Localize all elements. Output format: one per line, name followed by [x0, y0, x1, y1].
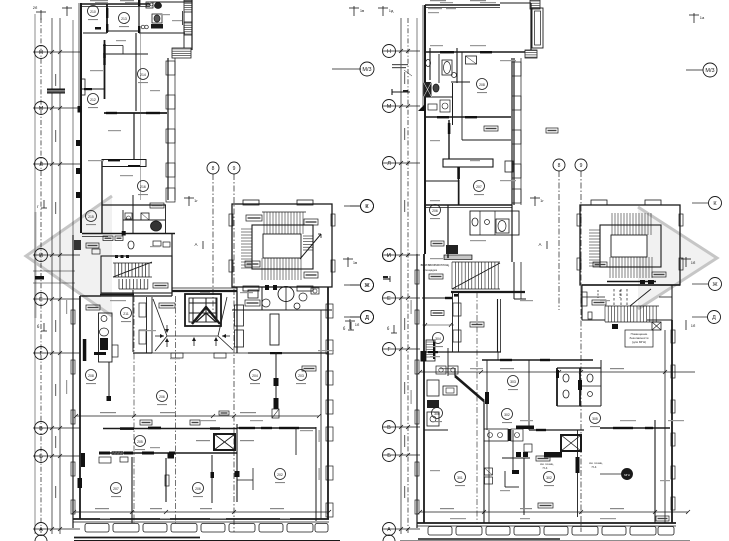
svg-text:(для МГН): (для МГН)	[632, 340, 646, 344]
axis К line mid2	[344, 205, 361, 207]
left entry stair stringer	[113, 262, 152, 264]
left wing right wall with pilasters	[167, 58, 169, 200]
right vwall 655	[654, 420, 656, 523]
right stair labels	[593, 262, 607, 267]
axis line vertical left-1	[40, 18, 42, 534]
marker 1d top mid	[382, 6, 384, 16]
right small sq	[524, 444, 532, 452]
left skylight arrows	[193, 338, 195, 346]
right wing hwall 52	[425, 51, 525, 53]
room circle 206	[157, 391, 168, 402]
room area labels	[88, 19, 98, 20]
marker 1v mid	[347, 257, 349, 267]
axis В line mid	[383, 426, 420, 428]
svg-text:А: А	[538, 242, 541, 247]
right stair dash bits	[597, 290, 599, 298]
right corridor wall x498	[497, 299, 499, 352]
left stair label 5	[245, 300, 260, 306]
axis 9 circle right plan	[575, 159, 587, 171]
left lower right wall	[327, 287, 329, 519]
left skylight trap lower diags	[155, 336, 167, 351]
right kitchen walls	[483, 401, 485, 430]
axis circle К mid2	[361, 200, 374, 213]
right wing vwall 458	[458, 167, 460, 205]
left hwall 353 black segs	[270, 352, 282, 354]
partial circle A1 bottom mid	[383, 535, 395, 541]
left lower left wall	[72, 235, 74, 528]
right wall black pier	[421, 351, 427, 362]
right room circle 301	[455, 472, 466, 483]
right wing hatched pier 2	[525, 50, 537, 58]
left wing vwall 136	[135, 33, 137, 111]
right wing hwall 205	[424, 204, 512, 206]
svg-text:площадка: площадка	[423, 268, 437, 272]
right wing beam	[443, 159, 493, 167]
marker 1b right	[685, 257, 687, 267]
left skylight trap left diag	[153, 299, 167, 336]
right wing bath fixtures	[426, 60, 431, 67]
left lower right wall pilasters	[326, 304, 333, 318]
axis circle В mid	[383, 421, 396, 434]
right wing tub	[496, 219, 509, 233]
svg-text:б: б	[343, 326, 346, 331]
dim text mid col	[404, 435, 405, 447]
svg-text:302: 302	[546, 476, 552, 480]
svg-text:П-4: П-4	[543, 466, 548, 470]
right corridor heavy wall	[451, 291, 525, 293]
right room circle MGN	[622, 469, 633, 480]
axis М/3 line mid2	[332, 68, 361, 70]
left entry vwall right	[171, 233, 173, 296]
left hwall 453 hatched seg	[112, 452, 123, 455]
svg-text:208: 208	[479, 83, 485, 87]
svg-text:Ж: Ж	[364, 283, 369, 289]
axis Е line left	[33, 298, 80, 300]
left stair wc hwall	[232, 309, 332, 311]
right stair inner walls	[600, 225, 661, 267]
right wing room circle 208	[477, 79, 488, 90]
axis circle Г mid	[383, 343, 396, 356]
svg-text:213: 213	[121, 17, 127, 21]
axis circle Д mid2	[361, 311, 374, 324]
extra smudges	[428, 8, 442, 9]
right dimline 372	[420, 371, 695, 373]
bracket symbol mid2	[383, 278, 390, 280]
left wing black pier left	[78, 106, 82, 113]
right stair pilasters top	[591, 200, 607, 205]
axis D circle right	[692, 316, 708, 318]
right foundation base	[418, 538, 560, 540]
axis line x134	[133, 296, 135, 523]
left foundation base	[74, 537, 200, 539]
right entry stair treads	[451, 262, 453, 289]
right label box 457	[536, 456, 550, 461]
right wing hwall 140	[462, 139, 511, 141]
svg-text:М: М	[39, 106, 44, 112]
marker 1g left plan	[188, 196, 190, 206]
dimension text smudges	[95, 2, 108, 3]
right room circle 302b	[544, 472, 555, 483]
left skylight trap right diag	[218, 297, 227, 336]
svg-text:Б: Б	[387, 453, 391, 459]
left wing room walls y205	[102, 204, 166, 206]
room circle 202	[275, 469, 286, 480]
left kitchen counter	[99, 313, 113, 362]
axis circle Л mid	[383, 157, 396, 170]
svg-text:1в: 1в	[353, 260, 357, 265]
svg-text:1г: 1г	[540, 198, 544, 203]
right kitchen island	[443, 386, 457, 395]
svg-text:9: 9	[233, 166, 236, 172]
left stair arrow diagonal	[300, 234, 321, 259]
dim text mid col	[404, 486, 405, 498]
right stair black bits	[612, 324, 618, 329]
left entry small fixtures	[128, 241, 134, 249]
right kitchen ladder	[426, 340, 435, 361]
left entry stair enclosure	[101, 256, 172, 293]
right wing dim marks	[430, 0, 446, 1]
svg-text:211: 211	[123, 312, 129, 316]
bracket symbol mid1	[392, 91, 410, 93]
axis А line mid	[383, 528, 420, 530]
svg-text:М/3: М/3	[362, 67, 371, 73]
axis circle В left	[35, 422, 48, 435]
dim text mid col	[404, 318, 405, 330]
black bar left strip	[35, 276, 44, 280]
axis 8 line right plan	[558, 171, 560, 310]
left wing room divider h1	[83, 32, 107, 34]
right wing room circle 207	[474, 181, 485, 192]
left label above xbox	[219, 411, 229, 415]
right label box 505	[538, 503, 553, 508]
dim text left col	[55, 74, 56, 86]
left stair wc room walls	[236, 287, 238, 310]
left skylight mullions	[192, 298, 194, 322]
right entry stair diagonal	[452, 263, 500, 289]
axis circle Е mid	[383, 292, 396, 305]
svg-text:Г: Г	[40, 351, 43, 357]
svg-text:206: 206	[195, 487, 201, 491]
left stair inner walls	[252, 225, 313, 269]
svg-text:Л: Л	[39, 162, 43, 168]
axis В line left	[33, 427, 80, 429]
axis М line mid	[383, 105, 420, 107]
right kitchen diagonal wall	[455, 376, 484, 401]
right stair pilasters sides	[577, 214, 581, 226]
left entry black pier	[74, 240, 81, 250]
svg-text:206: 206	[159, 395, 165, 399]
left hwall 353	[133, 352, 152, 354]
left wall radiator black bar	[83, 339, 87, 361]
left stair top flight treads	[263, 212, 265, 234]
right text pomeschenie	[625, 330, 653, 347]
right bottom wall	[417, 522, 676, 524]
left wing bath walls	[138, 0, 140, 33]
left wing right wall upper	[191, 0, 193, 50]
svg-text:В: В	[39, 426, 43, 432]
right wing hatched pier topright	[530, 0, 540, 9]
axis I circle mid	[383, 249, 396, 262]
right wing small room walls	[425, 116, 511, 118]
left stair block outer	[232, 204, 332, 287]
left wing closet walls	[103, 45, 123, 47]
right hwall misc	[424, 429, 448, 431]
svg-text:204: 204	[252, 374, 258, 378]
right hwall 298	[422, 297, 452, 299]
left stair block pilasters top	[243, 200, 259, 205]
left entry stair treads	[114, 263, 116, 277]
axis 9 line left plan	[233, 174, 235, 532]
svg-text:Н: Н	[39, 50, 43, 56]
axis 8 line left plan	[212, 174, 214, 310]
axis circle М mid	[383, 100, 396, 113]
axis circle А left	[35, 523, 48, 536]
axis Zh circle right	[692, 283, 708, 285]
room circle 205	[135, 436, 146, 447]
marker 1g right plan	[534, 196, 536, 206]
left vwall 296	[295, 427, 297, 455]
left wing black pier left2	[76, 140, 81, 146]
left wing dim text top	[90, 0, 108, 1]
left wing hatched pier top-right	[184, 0, 192, 12]
right wing vwall 512	[511, 58, 513, 262]
left wing left wall	[80, 3, 82, 233]
right wing room circle 206	[430, 205, 441, 216]
svg-text:М: М	[387, 104, 392, 110]
right room circle 303	[508, 376, 519, 387]
left stairblock wall below	[236, 291, 238, 353]
left stair wc fixtures	[248, 290, 258, 298]
room circle 207	[111, 483, 122, 494]
axis line vertical mid-2	[407, 18, 409, 534]
axis Л line left	[33, 163, 80, 165]
right entry label2	[429, 274, 443, 279]
svg-text:И: И	[387, 253, 391, 259]
marker 1b bottom right	[685, 320, 687, 330]
left dim texts 416	[100, 412, 116, 413]
left wing room circle 212	[88, 94, 99, 105]
left skylight trap bottom line	[167, 335, 218, 337]
right room circle 305	[590, 413, 601, 424]
left hwall 422	[103, 428, 237, 430]
left wing bath fixture wc	[155, 3, 162, 9]
axis Б line mid	[383, 454, 420, 456]
svg-text:305: 305	[592, 417, 598, 421]
right entry black chunks	[446, 245, 458, 254]
left hwall 453 lower bits	[99, 457, 111, 463]
left wing hatched pier right 2	[184, 22, 192, 35]
right wing wc2	[472, 218, 478, 226]
right room circle 302	[502, 409, 513, 420]
wall extension line left	[72, 20, 74, 235]
svg-text:И: И	[39, 253, 43, 259]
left vwall 237	[236, 424, 238, 502]
svg-text:207: 207	[476, 185, 482, 189]
svg-text:9: 9	[580, 163, 583, 169]
right stair lower walls	[582, 296, 605, 298]
svg-text:Е: Е	[387, 296, 391, 302]
right wing bath row	[470, 211, 519, 235]
right wing balcony	[532, 8, 543, 48]
right bottom dim texts	[440, 508, 454, 509]
axis Г line mid	[383, 348, 420, 350]
right lower top boundary	[582, 319, 605, 321]
right stair lower stairs	[604, 306, 606, 322]
axis Л line mid	[383, 162, 420, 164]
svg-text:215: 215	[88, 215, 94, 219]
left wing left wall notch	[81, 79, 85, 95]
left wing bath fixture tub	[151, 24, 163, 29]
left stair label 2	[304, 219, 318, 225]
svg-text:1б: 1б	[691, 260, 696, 265]
axis D circle leftmid	[350, 316, 361, 318]
dim text left col	[55, 320, 56, 332]
right label 310	[431, 311, 444, 316]
left xbox2	[214, 434, 235, 450]
svg-text:Б: Б	[39, 454, 43, 460]
axis circle И mid	[383, 249, 396, 262]
left bottom wall	[73, 518, 329, 520]
left skylight frame	[185, 294, 221, 326]
right wing wall x531	[530, 3, 532, 50]
left entry hwall 234	[82, 233, 175, 235]
dim text mid col	[404, 72, 405, 84]
right wing fixtures 2	[428, 104, 437, 110]
left stair wc black bits	[265, 285, 269, 290]
svg-text:8: 8	[212, 166, 215, 172]
svg-text:П-4: П-4	[592, 465, 597, 469]
right stair lower room	[581, 285, 583, 320]
axis Ж line mid2	[344, 284, 361, 286]
right san block walls	[556, 368, 558, 406]
marker 1v top mid	[353, 6, 355, 16]
svg-text:А: А	[194, 242, 197, 247]
axis circle Б mid	[383, 449, 396, 462]
right corridor wall x452	[452, 292, 454, 352]
svg-text:207: 207	[113, 487, 119, 491]
axis line vertical left-0	[34, 14, 36, 534]
right lower right wall pilasters	[671, 330, 675, 343]
dim text left col	[55, 130, 56, 142]
right vwall 4872	[483, 430, 485, 523]
axis Е line mid	[383, 297, 420, 299]
dim text left col	[55, 202, 56, 214]
axis circle М/3 mid2	[360, 62, 374, 76]
dim text left col	[55, 384, 56, 396]
svg-text:М/3: М/3	[705, 68, 714, 74]
axis Н line left	[33, 51, 80, 53]
svg-text:205: 205	[137, 440, 143, 444]
left wing room circle 211	[119, 13, 130, 24]
svg-text:8: 8	[558, 163, 561, 169]
marker 1b mid	[349, 319, 351, 329]
right stair lower stairs diag	[630, 289, 651, 306]
left wing top wall right part	[150, 1, 192, 3]
left wing dim vline 140	[140, 33, 142, 200]
left vwall 166	[165, 458, 167, 502]
right entry crosshatch ramp	[444, 255, 472, 260]
right stair left flight treads	[589, 229, 600, 231]
right stair lower label	[592, 300, 606, 305]
right label 322	[470, 322, 484, 327]
right wing vwall 459	[458, 180, 460, 205]
svg-text:203: 203	[298, 374, 304, 378]
left vwall 274	[270, 314, 279, 345]
svg-text:306: 306	[434, 412, 440, 416]
right vwall 513	[512, 430, 514, 470]
svg-text:210: 210	[90, 10, 96, 14]
left foundation bumps	[85, 524, 109, 533]
wall type symbol left strip	[47, 89, 65, 94]
left entry bottom heavy seg	[100, 294, 134, 296]
axis line vertical left-3	[59, 18, 61, 534]
left wing hatched pier right 3	[172, 48, 191, 58]
svg-text:Ж: Ж	[712, 282, 717, 288]
svg-text:МГН: МГН	[624, 473, 630, 477]
left stair label 4	[304, 272, 318, 278]
left stair wc circles	[262, 299, 270, 307]
svg-text:В: В	[387, 425, 391, 431]
axis circle М left	[35, 102, 48, 115]
right stair bottom wall	[582, 284, 680, 286]
svg-text:выставочная площ.: выставочная площ.	[421, 263, 450, 267]
svg-text:208: 208	[88, 374, 94, 378]
right room circle 304	[433, 333, 444, 344]
right wing vwall 448	[447, 205, 449, 258]
right kitchen fixtures col	[427, 380, 439, 396]
left wing label box	[150, 203, 164, 208]
left wing top wall	[81, 3, 150, 5]
axis Г line left	[33, 352, 80, 354]
right wing shaft box	[505, 161, 513, 172]
axis circle Ж mid2	[361, 279, 374, 292]
right wing top wall	[425, 4, 500, 6]
dim text mid col	[404, 382, 405, 394]
left vwall 132	[131, 457, 133, 523]
axis line vertical left-2	[51, 18, 53, 534]
right hwall 430 mid	[529, 429, 584, 431]
marker 1a top right	[693, 13, 695, 23]
svg-text:1в: 1в	[360, 8, 364, 13]
axis Н line mid	[383, 50, 420, 52]
left small walls y480	[237, 479, 253, 481]
left stair label 1	[246, 215, 262, 221]
axis 8 circle right plan	[553, 159, 565, 171]
right stair bottom flight treads	[609, 257, 611, 278]
room circle 208	[86, 370, 97, 381]
right san fixtures	[563, 374, 569, 382]
dim text left col	[55, 486, 56, 498]
right xbox	[561, 435, 581, 451]
right lower right wall	[671, 320, 673, 523]
svg-text:Д: Д	[365, 315, 369, 321]
left wing hwall at 113	[104, 112, 167, 114]
left dimline 416	[76, 415, 319, 417]
left vwall 316	[315, 427, 317, 521]
left wing room circle 214	[138, 69, 149, 80]
watermark triangle right	[638, 207, 717, 309]
right hwall 352	[421, 351, 501, 353]
marker 1б top-left2	[66, 6, 68, 16]
right wing right wall pilasters	[513, 58, 515, 205]
left bottom dim texts	[95, 508, 109, 509]
right stair void	[611, 235, 647, 257]
wall extension line right	[416, 18, 418, 254]
axis И line mid	[383, 254, 420, 256]
right wing top wall 2	[500, 2, 531, 4]
axis M/3 circle right	[686, 69, 703, 71]
axis circle Е left	[35, 293, 48, 306]
